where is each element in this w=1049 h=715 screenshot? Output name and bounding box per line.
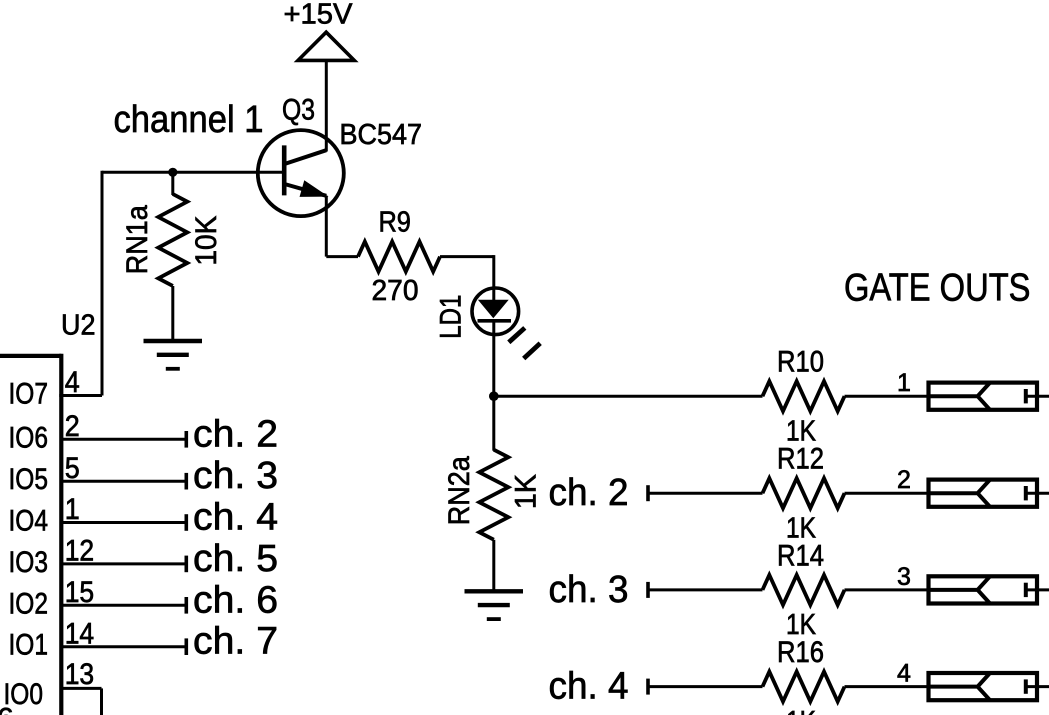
svg-text:GATE OUTS: GATE OUTS xyxy=(844,267,1031,310)
svg-text:IO5: IO5 xyxy=(9,463,49,496)
svg-text:270: 270 xyxy=(372,275,419,307)
jack connector 4 body xyxy=(929,673,1038,700)
wire end tick IO2 xyxy=(185,597,189,614)
svg-text:1: 1 xyxy=(897,369,911,397)
svg-text:+15V: +15V xyxy=(284,0,354,30)
svg-text:R12: R12 xyxy=(777,443,824,476)
wire RN1a bottom xyxy=(171,286,174,341)
svg-text:IO7: IO7 xyxy=(9,378,49,411)
jack connector 2 body xyxy=(929,480,1038,507)
resistor R12 xyxy=(763,478,845,508)
wire gate 2 to resistor xyxy=(648,492,763,495)
jack connector 4 sleeve contact xyxy=(1024,679,1028,693)
wire IO6 pin stub xyxy=(61,438,186,441)
svg-text:ch. 2: ch. 2 xyxy=(193,413,278,455)
resistor RN1a xyxy=(158,194,187,286)
ground below RN2a xyxy=(465,589,524,593)
svg-text:RN1a: RN1a xyxy=(121,205,154,274)
wire down to LED xyxy=(492,255,495,289)
transistor Q3 collector diagonal xyxy=(285,150,327,164)
resistor R16 xyxy=(763,672,845,702)
transistor Q3 body circle xyxy=(258,130,344,216)
transistor Q3 emitter diagonal xyxy=(285,184,327,196)
resistor R10 xyxy=(763,381,845,411)
svg-text:IO1: IO1 xyxy=(9,629,49,662)
LED LD1 anode wire xyxy=(492,287,495,301)
wire LED to junction xyxy=(492,321,495,397)
svg-text:R14: R14 xyxy=(777,539,824,572)
jack connector 2 tip contact xyxy=(927,480,991,507)
svg-text:1K: 1K xyxy=(510,474,543,509)
wire R9 to LED corner xyxy=(440,255,494,258)
resistor R9 xyxy=(358,242,440,272)
svg-text:U2: U2 xyxy=(61,310,96,342)
wire gate 1 from junction xyxy=(494,395,763,398)
svg-text:BC547: BC547 xyxy=(340,119,423,151)
svg-text:IO2: IO2 xyxy=(9,587,49,620)
svg-text:ch. 3: ch. 3 xyxy=(193,455,278,497)
wire end tick IO4 xyxy=(185,514,189,531)
svg-text:channel 1: channel 1 xyxy=(114,99,264,141)
wire RN1a top xyxy=(171,172,174,195)
wire end tick IO6 xyxy=(185,431,189,448)
chip U2 right edge xyxy=(59,354,63,715)
svg-text:Q3: Q3 xyxy=(282,94,315,127)
wire IO4 pin stub xyxy=(61,521,186,524)
power +15V symbol xyxy=(298,32,354,60)
LED LD1 light arrows xyxy=(509,328,525,342)
wire IO1 pin stub xyxy=(61,645,186,648)
svg-text:IO3: IO3 xyxy=(9,546,49,579)
svg-text:3: 3 xyxy=(897,563,911,591)
LED LD1 circle xyxy=(472,288,519,335)
wire left vertical (IO7 to base) xyxy=(101,171,104,396)
wire start tick gate 3 xyxy=(646,582,650,598)
wire emitter to R9 xyxy=(326,255,358,258)
jack connector 3 sleeve contact xyxy=(1024,583,1028,597)
svg-text:ch. 3: ch. 3 xyxy=(549,569,629,611)
wire R16 to jack xyxy=(845,685,929,688)
junction base/RN1a xyxy=(168,168,177,177)
resistor RN2a xyxy=(479,450,508,540)
jack connector 1 sleeve contact xyxy=(1024,389,1028,403)
svg-text:ch. 5: ch. 5 xyxy=(193,538,278,580)
wire IO0 down xyxy=(100,688,103,715)
svg-text:2: 2 xyxy=(897,466,911,494)
svg-text:R10: R10 xyxy=(777,346,824,379)
svg-text:6: 6 xyxy=(0,703,14,715)
svg-text:13: 13 xyxy=(65,658,95,691)
svg-text:R16: R16 xyxy=(777,636,824,669)
wire start tick gate 2 xyxy=(646,485,650,501)
wire pin 4 stub xyxy=(59,394,102,397)
wire end tick IO1 xyxy=(185,638,189,655)
wire base xyxy=(102,171,286,174)
LED LD1 triangle xyxy=(478,300,509,319)
jack connector 2 sleeve contact xyxy=(1024,486,1028,500)
wire jack 1 out xyxy=(1026,395,1049,398)
wire R12 to jack xyxy=(845,492,929,495)
svg-text:10K: 10K xyxy=(190,216,223,266)
svg-text:LD1: LD1 xyxy=(435,295,468,339)
resistor R14 xyxy=(763,575,845,605)
jack connector 3 body xyxy=(929,576,1038,603)
jack connector 3 tip contact xyxy=(927,576,991,603)
wire IO5 pin stub xyxy=(61,480,186,483)
wire collector from +15V xyxy=(325,60,328,151)
svg-text:RN2a: RN2a xyxy=(443,456,476,525)
jack connector 1 tip contact xyxy=(927,383,991,410)
wire IO0 pin stub xyxy=(61,687,101,690)
svg-text:ch. 7: ch. 7 xyxy=(193,621,278,663)
wire gate 4 to resistor xyxy=(648,685,763,688)
wire R10 to jack xyxy=(845,395,929,398)
wire start tick gate 4 xyxy=(646,679,650,695)
transistor Q3 emitter arrow xyxy=(301,182,324,195)
svg-text:IO4: IO4 xyxy=(9,505,49,538)
wire jack 2 out xyxy=(1026,492,1049,495)
wire emitter down xyxy=(325,196,328,257)
wire junction to RN2a xyxy=(492,396,495,451)
svg-text:1K: 1K xyxy=(786,706,816,715)
junction LED/RN2a/gate1 xyxy=(489,391,499,401)
wire jack 3 out xyxy=(1026,588,1049,591)
svg-text:ch. 2: ch. 2 xyxy=(549,472,629,514)
svg-text:IO6: IO6 xyxy=(9,421,49,454)
jack connector 1 body xyxy=(929,383,1038,410)
transistor Q3 base bar xyxy=(282,145,287,195)
svg-text:ch. 6: ch. 6 xyxy=(193,579,278,621)
wire RN2a bottom xyxy=(492,540,495,592)
wire end tick IO5 xyxy=(185,473,189,490)
chip U2 top edge xyxy=(0,354,61,358)
svg-text:4: 4 xyxy=(897,660,911,688)
wire gate 3 to resistor xyxy=(648,588,763,591)
wire R14 to jack xyxy=(845,588,929,591)
svg-text:4: 4 xyxy=(65,366,80,399)
wire IO2 pin stub xyxy=(61,604,186,607)
LED LD1 cathode bar xyxy=(478,319,512,323)
svg-text:ch. 4: ch. 4 xyxy=(549,666,629,708)
svg-text:R9: R9 xyxy=(378,207,411,239)
svg-text:ch. 4: ch. 4 xyxy=(193,497,278,539)
jack connector 4 tip contact xyxy=(927,673,991,700)
wire IO3 pin stub xyxy=(61,562,186,565)
wire jack 4 out xyxy=(1026,685,1049,688)
ground below RN1a xyxy=(144,339,203,343)
wire end tick IO3 xyxy=(185,556,189,573)
